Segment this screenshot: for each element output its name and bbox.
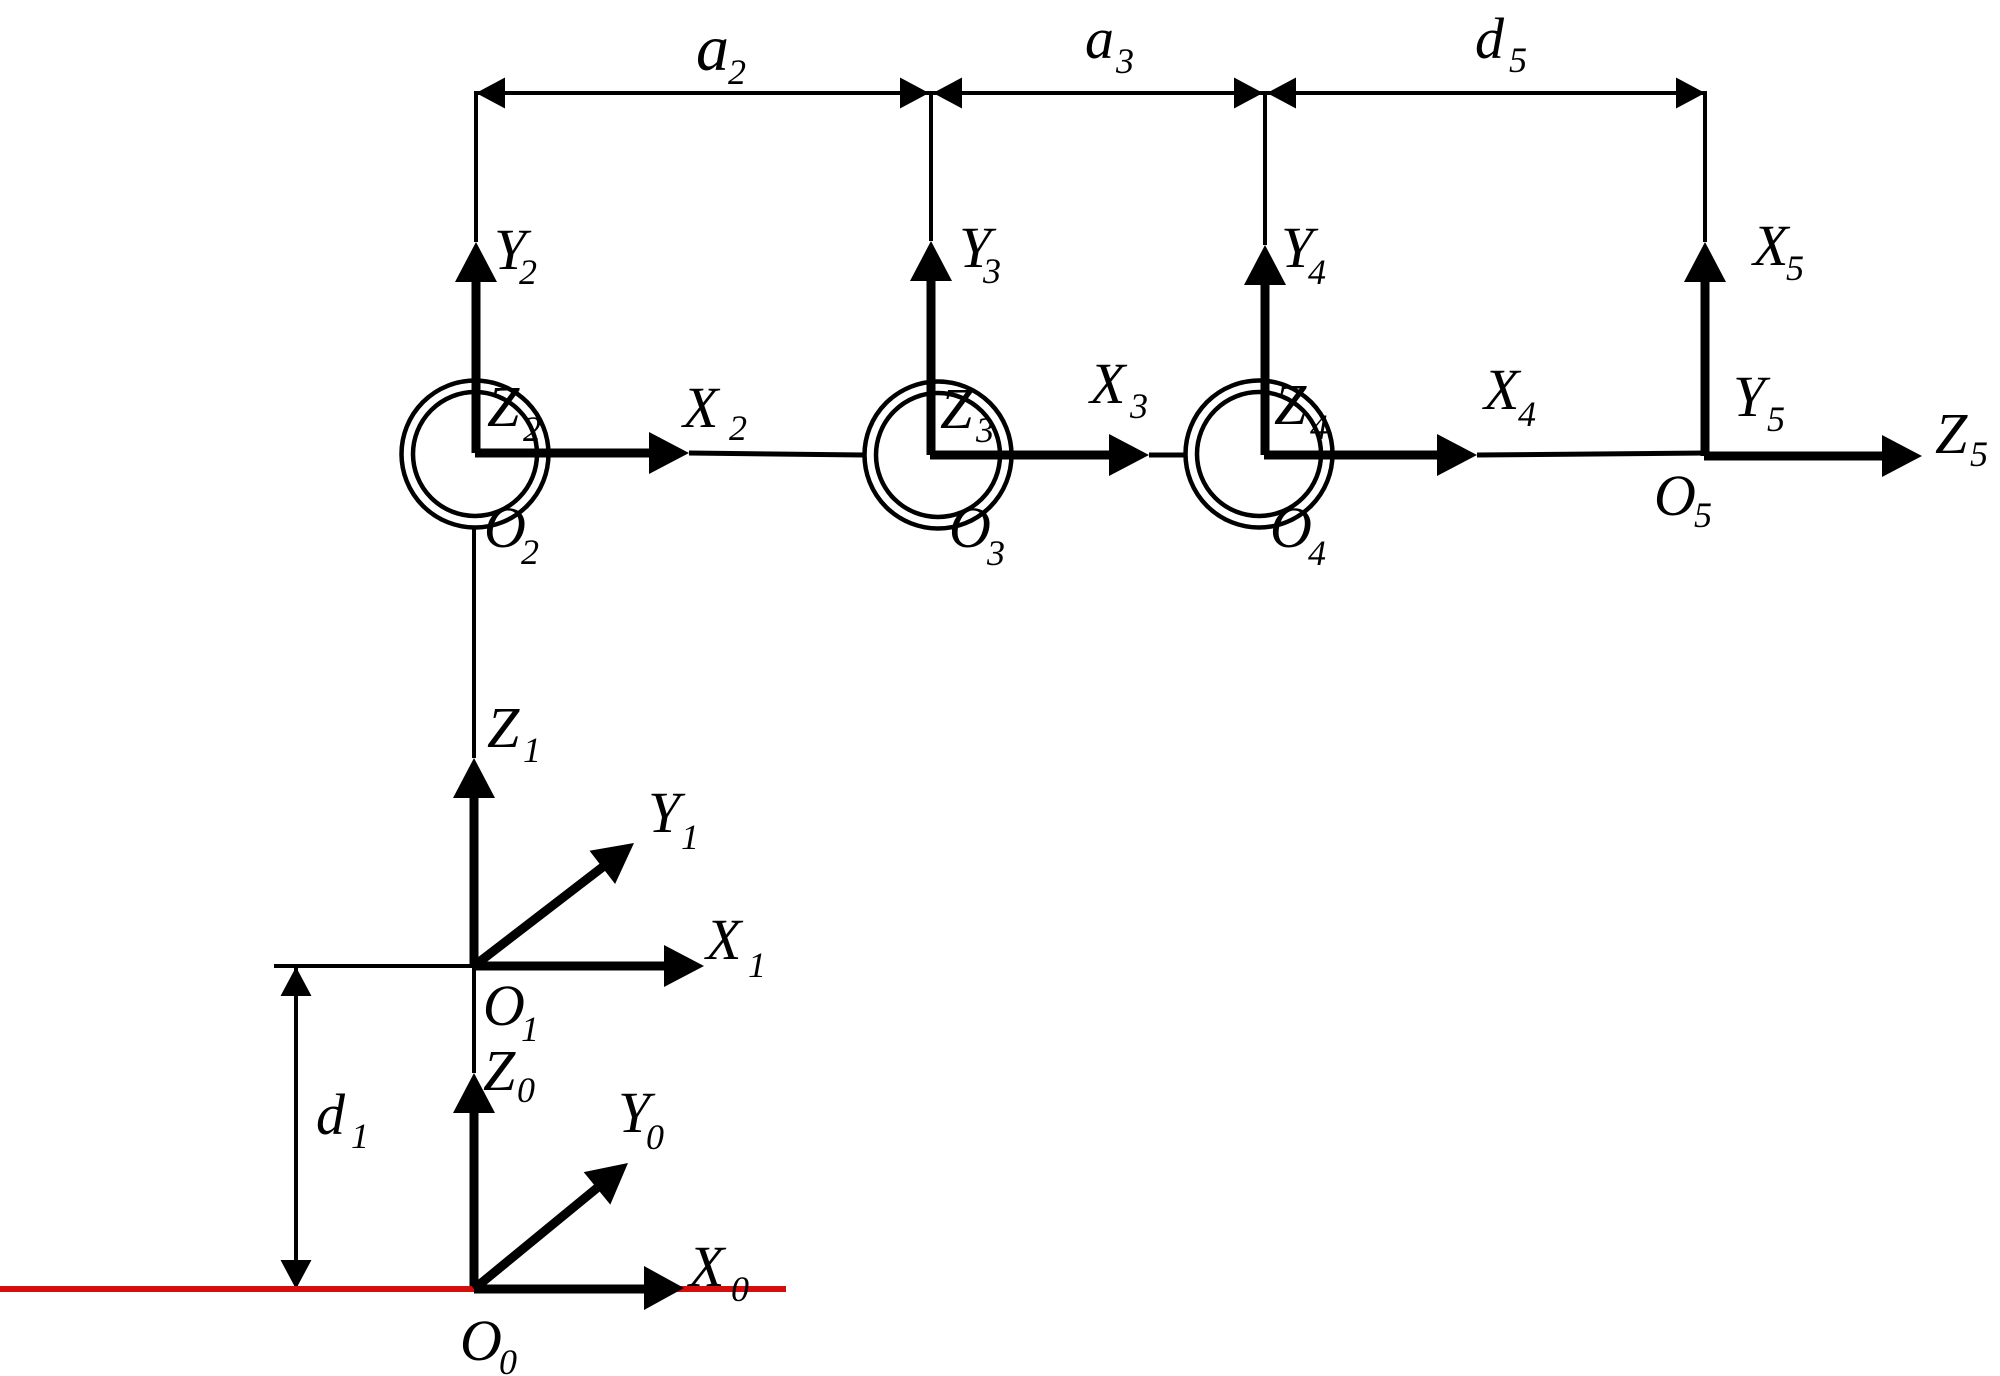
svg-text:2: 2: [523, 409, 541, 449]
dimension arrows bowtie at O3 column: [900, 78, 929, 109]
joint circle O3 outer: [865, 382, 1012, 529]
X1 axis shaft: [474, 962, 666, 971]
svg-text:4: 4: [1308, 533, 1326, 573]
svg-text:O: O: [1270, 495, 1312, 560]
dimension line a2-a3-d5 chain: [476, 91, 1705, 95]
svg-text:5: 5: [1970, 434, 1988, 474]
svg-text:Z: Z: [487, 695, 520, 760]
svg-text:Z: Z: [1274, 372, 1307, 437]
svg-text:2: 2: [729, 408, 747, 448]
X2 axis shaft: [475, 449, 651, 458]
X0 axis shaft: [474, 1285, 646, 1294]
svg-text:0: 0: [499, 1342, 517, 1376]
Y2 arrowhead: [455, 242, 497, 282]
Y0 axis shaft: [474, 1188, 597, 1289]
link line O3-O4: [1149, 453, 1186, 458]
ground red line: [0, 1286, 786, 1292]
joint circle O4 outer: [1186, 381, 1333, 528]
joint circle O4 inner: [1197, 392, 1321, 516]
link line O4-O5: [1477, 453, 1705, 455]
svg-text:X: X: [1088, 351, 1128, 416]
svg-text:4: 4: [1308, 252, 1326, 292]
extension line above Y4: [1263, 91, 1267, 245]
svg-text:X: X: [687, 1234, 727, 1299]
X4 arrowhead: [1437, 434, 1477, 476]
X5 axis shaft: [1701, 280, 1710, 456]
svg-text:X: X: [1482, 357, 1522, 422]
Z1 axis shaft: [470, 796, 479, 966]
svg-text:0: 0: [517, 1070, 535, 1110]
svg-text:1: 1: [748, 945, 766, 985]
link line O2-O3: [689, 453, 864, 455]
dimension arrow right at O5 column: [1676, 78, 1705, 109]
svg-text:1: 1: [523, 730, 541, 770]
X3 axis shaft: [930, 451, 1111, 460]
dimension arrow left at O2 column: [476, 78, 505, 109]
Y4 axis shaft: [1261, 283, 1270, 455]
svg-text:4: 4: [1310, 407, 1328, 447]
svg-text:a: a: [1085, 6, 1114, 71]
svg-text:3: 3: [986, 533, 1005, 573]
svg-text:2: 2: [521, 532, 539, 572]
svg-text:1: 1: [351, 1116, 369, 1156]
joint circle O2 outer: [402, 381, 549, 528]
Y1 arrowhead: [590, 843, 635, 884]
svg-text:Z: Z: [1935, 401, 1968, 466]
Y0 arrowhead: [584, 1163, 628, 1205]
svg-text:X: X: [681, 375, 721, 440]
svg-text:3: 3: [1115, 41, 1134, 81]
Y2 axis shaft: [472, 280, 481, 453]
d1 extension line at O1 level: [274, 964, 474, 968]
svg-text:1: 1: [681, 817, 699, 857]
X5 arrowhead: [1684, 242, 1726, 282]
Y1 axis shaft: [474, 866, 604, 966]
svg-text:X: X: [704, 907, 744, 972]
svg-text:Z: Z: [483, 1038, 516, 1103]
Z0 arrowhead: [453, 1073, 495, 1113]
svg-text:5: 5: [1786, 248, 1804, 288]
d1 arrow down: [281, 1260, 312, 1289]
extension line above Y3: [929, 91, 933, 241]
X2 arrowhead: [649, 432, 689, 474]
svg-text:3: 3: [982, 251, 1001, 291]
svg-text:1: 1: [521, 1009, 539, 1049]
link line O1-O0: [472, 966, 476, 1073]
svg-text:0: 0: [646, 1117, 664, 1157]
Z1 arrowhead: [453, 758, 495, 798]
Y3 axis shaft: [927, 279, 936, 455]
svg-text:O: O: [1654, 463, 1696, 528]
svg-text:5: 5: [1767, 399, 1785, 439]
svg-text:3: 3: [975, 410, 994, 450]
Z5 arrowhead: [1882, 435, 1922, 477]
joint circle O3 inner: [876, 393, 1000, 517]
svg-text:O: O: [483, 973, 525, 1038]
svg-text:3: 3: [1129, 386, 1148, 426]
svg-text:a: a: [696, 12, 729, 85]
extension line above X5: [1703, 91, 1707, 242]
Y3 arrowhead: [910, 241, 952, 281]
svg-text:5: 5: [1509, 40, 1527, 80]
d1 dimension line: [294, 967, 298, 1289]
Y4 arrowhead: [1244, 245, 1286, 285]
svg-text:0: 0: [731, 1269, 749, 1309]
svg-text:2: 2: [519, 252, 537, 292]
Z0 axis shaft: [470, 1111, 479, 1289]
svg-text:4: 4: [1518, 394, 1536, 434]
X4 axis shaft: [1264, 451, 1439, 460]
X0 arrowhead: [644, 1266, 684, 1310]
svg-text:5: 5: [1694, 495, 1712, 535]
Z5 axis shaft: [1704, 452, 1884, 461]
svg-text:d: d: [316, 1082, 346, 1147]
X1 arrowhead: [664, 945, 704, 987]
dimension arrows bowtie at O4 column: [1234, 78, 1263, 109]
svg-text:O: O: [460, 1308, 502, 1373]
svg-text:2: 2: [728, 52, 746, 92]
svg-text:O: O: [484, 495, 526, 560]
svg-text:X: X: [1751, 213, 1791, 278]
svg-text:d: d: [1475, 6, 1505, 71]
svg-text:Z: Z: [487, 374, 520, 439]
joint circle O2 inner: [413, 392, 537, 516]
X3 arrowhead: [1109, 434, 1149, 476]
d1 arrow up: [281, 967, 312, 996]
extension line above Y2: [474, 91, 478, 242]
svg-text:Y: Y: [1733, 364, 1771, 429]
link line O2-O1: [472, 528, 476, 758]
svg-text:O: O: [949, 495, 991, 560]
svg-text:Z: Z: [940, 376, 973, 441]
